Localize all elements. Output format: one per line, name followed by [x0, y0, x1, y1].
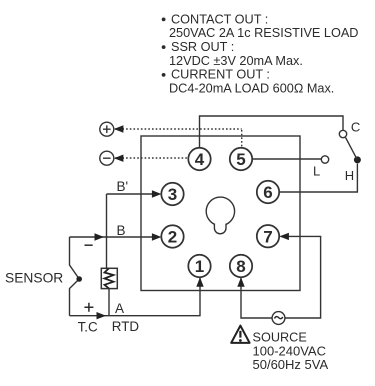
svg-text:50/60Hz 5VA: 50/60Hz 5VA	[253, 357, 329, 372]
pin 2	[161, 225, 183, 247]
svg-text:CONTACT OUT :: CONTACT OUT :	[171, 12, 268, 26]
pin 7	[257, 225, 279, 247]
svg-text:A: A	[115, 301, 124, 316]
switch pole H	[354, 156, 361, 163]
svg-text:250VAC 2A 1c RESISTIVE LOAD: 250VAC 2A 1c RESISTIVE LOAD	[169, 26, 358, 40]
pin 6	[257, 181, 279, 203]
svg-text:6: 6	[263, 183, 272, 202]
svg-text:DC4-20mA LOAD 600Ω Max.: DC4-20mA LOAD 600Ω Max.	[169, 81, 334, 95]
svg-text:B: B	[117, 223, 126, 238]
switch contact C	[339, 130, 346, 137]
svg-text:L: L	[313, 164, 320, 179]
svg-text:SENSOR: SENSOR	[5, 271, 63, 286]
svg-text:3: 3	[168, 185, 177, 204]
terminal -	[100, 151, 114, 165]
svg-text:7: 7	[263, 227, 272, 246]
svg-text:12VDC ±3V 20mA Max.: 12VDC ±3V 20mA Max.	[169, 54, 303, 68]
wire B to pin 2 (thermocouple minus lead)	[70, 233, 162, 240]
wire A to pin 1 (thermocouple plus lead)	[70, 277, 204, 319]
wire: pin 4 riser to switch C	[200, 116, 344, 148]
wire: B'/B junction vertical to RTD top	[106, 194, 108, 268]
wire (dotted): terminal - to pin 4	[114, 155, 188, 162]
note: output ratings list	[162, 12, 359, 95]
wire: pin 8 to AC source	[237, 277, 272, 318]
pin 5	[230, 148, 252, 170]
svg-text:RTD: RTD	[112, 319, 140, 334]
svg-text:1: 1	[195, 257, 204, 276]
svg-text:SSR OUT :: SSR OUT :	[171, 40, 234, 54]
svg-text:T.C: T.C	[78, 319, 98, 334]
svg-text:2: 2	[168, 228, 177, 247]
svg-text:8: 8	[236, 257, 245, 276]
svg-text:B': B'	[117, 179, 129, 194]
warning triangle	[231, 326, 249, 343]
label minus (sensor)	[85, 244, 93, 246]
label plus (sensor)	[84, 303, 93, 312]
AC source symbol	[272, 312, 285, 325]
pin 3	[161, 183, 183, 205]
svg-text:C: C	[351, 120, 360, 135]
svg-text:4: 4	[195, 150, 205, 169]
wire (dotted): terminal + to pin 5	[114, 125, 242, 147]
switch lever	[346, 138, 358, 160]
pin 1	[188, 255, 210, 277]
wire: switch pole H to pin 6	[279, 164, 357, 192]
switch contact L	[321, 156, 328, 163]
pin 4	[188, 148, 210, 170]
svg-text:H: H	[345, 168, 354, 183]
svg-text:CURRENT OUT :: CURRENT OUT :	[171, 68, 270, 82]
socket outline	[141, 136, 300, 291]
keyhole	[206, 197, 234, 234]
wire: AC source to pin 7	[279, 233, 320, 318]
svg-text:5: 5	[236, 150, 245, 169]
pin 8	[230, 255, 252, 277]
terminal +	[100, 122, 114, 136]
wire: pin 5 to contact L	[252, 158, 321, 160]
resistor RTD	[101, 268, 117, 315]
thermocouple T.C	[70, 237, 82, 316]
wire B' to pin 3	[107, 190, 162, 197]
